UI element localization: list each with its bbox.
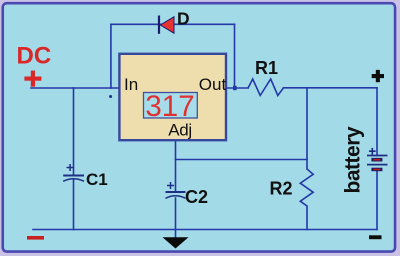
diode D [159, 16, 174, 34]
battery + terminal [372, 70, 384, 82]
wire: battery - to ground rail [376, 171, 378, 229]
wire: R1 to battery + corner [284, 87, 378, 89]
svg-text:D: D [177, 9, 190, 29]
resistor R1 [248, 79, 283, 96]
capacitor C2 [166, 182, 186, 198]
wire: C1 branch upper [73, 88, 75, 176]
wire: C1 branch lower [73, 179, 75, 230]
svg-text:Adj: Adj [168, 121, 192, 140]
battery - terminal [369, 235, 382, 239]
svg-text:battery: battery [342, 126, 365, 193]
wire: Adj pin down through C2 [175, 141, 177, 193]
capacitor C1 [63, 164, 84, 181]
wire: Out pin to R1 [226, 87, 248, 89]
regulator U1 box [119, 54, 226, 140]
wire: C2 bottom to rail [175, 198, 177, 230]
317 value box [144, 93, 198, 119]
svg-text:Out: Out [199, 75, 227, 94]
wire: ground stub below rail [175, 230, 177, 239]
wire: riser to diode rail [110, 24, 112, 88]
wire: node down to R2 top [306, 88, 308, 169]
svg-text:R1: R1 [255, 58, 278, 78]
DC - terminal [27, 236, 44, 240]
svg-text:C1: C1 [86, 170, 108, 189]
wire: diode top rail [111, 23, 235, 25]
svg-text:DC: DC [17, 42, 52, 69]
DC + terminal [24, 71, 41, 87]
svg-text:C2: C2 [185, 187, 208, 207]
wire: corner down to battery + plate [376, 88, 378, 156]
ground [163, 237, 189, 248]
wire: DC+ input to regulator In [31, 87, 118, 89]
svg-text:317: 317 [145, 90, 194, 123]
stray junction dot [109, 95, 112, 98]
battery [367, 148, 388, 171]
svg-text:R2: R2 [270, 179, 293, 199]
resistor R2 [300, 169, 313, 206]
wire: R2 bottom to ground rail [306, 206, 308, 230]
junction node at Out/diode rail [233, 86, 237, 90]
wire: diode rail down to Out node [234, 24, 236, 88]
svg-text:In: In [124, 75, 138, 94]
wire: ground rail [33, 229, 377, 231]
wire: Adj to divider node [176, 159, 308, 161]
